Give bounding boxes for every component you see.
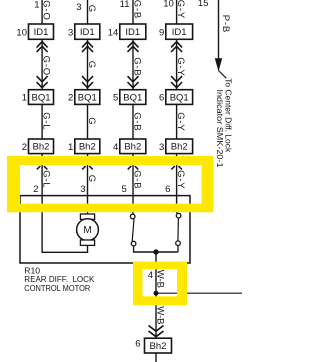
svg-text:ID1: ID1 <box>125 27 140 38</box>
svg-text:ID1: ID1 <box>172 27 187 38</box>
svg-text:3: 3 <box>80 184 85 195</box>
svg-text:Bh2: Bh2 <box>171 142 188 153</box>
svg-text:Bh2: Bh2 <box>124 142 141 153</box>
svg-text:G-L: G-L <box>41 112 52 130</box>
svg-text:3: 3 <box>159 142 164 153</box>
svg-text:BQ1: BQ1 <box>170 92 189 103</box>
svg-text:5: 5 <box>122 184 127 195</box>
svg-text:14: 14 <box>108 27 119 38</box>
svg-text:ID1: ID1 <box>34 27 49 38</box>
svg-text:G-Y: G-Y <box>175 112 186 131</box>
svg-text:W-B: W-B <box>154 270 165 288</box>
svg-text:Bh2: Bh2 <box>33 142 50 153</box>
svg-text:BQ1: BQ1 <box>78 92 97 103</box>
svg-text:G-B: G-B <box>132 0 143 19</box>
svg-text:G: G <box>86 175 97 183</box>
svg-text:G-O: G-O <box>41 56 52 76</box>
svg-text:4: 4 <box>148 270 153 281</box>
svg-text:11: 11 <box>120 0 130 10</box>
svg-text:P-B: P-B <box>220 15 231 33</box>
svg-text:G: G <box>86 5 97 13</box>
svg-text:4: 4 <box>113 142 118 153</box>
svg-text:G-B: G-B <box>132 170 143 189</box>
svg-text:BQ1: BQ1 <box>31 92 50 103</box>
svg-text:3: 3 <box>68 27 73 38</box>
svg-text:G-O: G-O <box>41 0 52 20</box>
svg-text:G-Y: G-Y <box>175 57 186 76</box>
svg-text:G: G <box>86 117 97 125</box>
svg-text:10: 10 <box>163 0 174 10</box>
svg-text:9: 9 <box>159 27 164 38</box>
svg-text:G-B: G-B <box>132 112 143 131</box>
svg-text:BQ1: BQ1 <box>123 92 142 103</box>
svg-text:Indicator SMK-20-1: Indicator SMK-20-1 <box>215 90 225 168</box>
svg-text:G-B: G-B <box>132 57 143 76</box>
svg-text:G-Y: G-Y <box>175 170 186 189</box>
svg-text:W-B: W-B <box>154 306 165 324</box>
svg-text:G-Y: G-Y <box>175 0 186 19</box>
svg-text:M: M <box>83 225 91 236</box>
svg-text:1: 1 <box>68 142 73 153</box>
svg-text:Bh2: Bh2 <box>79 142 96 153</box>
svg-text:2: 2 <box>22 142 27 153</box>
svg-text:2: 2 <box>68 93 73 104</box>
svg-text:G: G <box>86 61 97 69</box>
svg-text:2: 2 <box>33 184 38 195</box>
svg-text:10: 10 <box>16 27 27 38</box>
svg-text:CONTROL MOTOR: CONTROL MOTOR <box>24 283 90 293</box>
svg-text:6: 6 <box>135 338 140 349</box>
svg-text:15: 15 <box>198 0 209 9</box>
svg-text:1: 1 <box>22 93 27 104</box>
svg-text:Bh2: Bh2 <box>150 341 167 352</box>
svg-text:6: 6 <box>159 93 164 104</box>
svg-text:ID1: ID1 <box>80 27 95 38</box>
svg-text:5: 5 <box>113 93 118 104</box>
svg-text:6: 6 <box>165 184 170 195</box>
svg-text:G-L: G-L <box>41 170 52 188</box>
svg-text:1: 1 <box>34 0 39 11</box>
svg-text:3: 3 <box>76 2 81 13</box>
